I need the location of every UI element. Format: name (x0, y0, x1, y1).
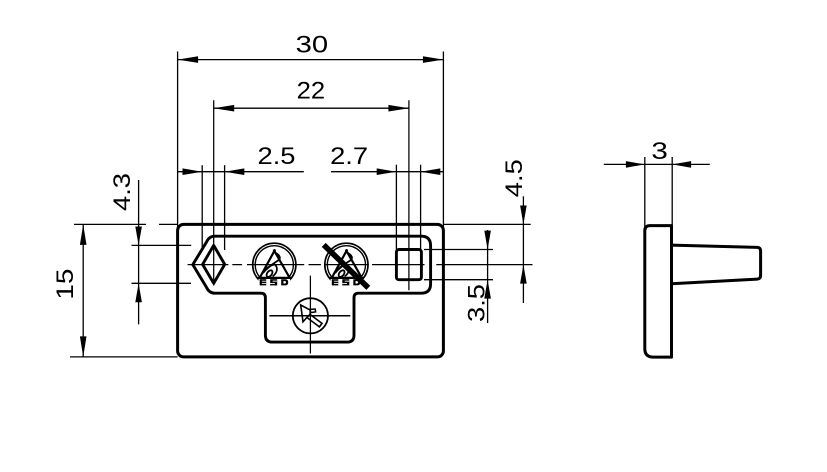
dimension 4.5 (443, 159, 530, 303)
svg-text:4.3: 4.3 (109, 173, 136, 211)
svg-text:3: 3 (651, 138, 668, 165)
svg-text:15: 15 (52, 269, 79, 300)
dimension 15 (52, 224, 178, 357)
dimension 22 (214, 77, 409, 111)
centerline square vertical (408, 100, 410, 290)
svg-text:22: 22 (297, 77, 326, 104)
centerline cursor horizontal (269, 315, 350, 317)
diamond symbol (203, 245, 225, 283)
plate outline front view (178, 224, 444, 357)
side view plate (645, 226, 672, 358)
esd symbol U2 crossed (324, 243, 369, 288)
square symbol (396, 250, 421, 280)
dimension 2.5 (178, 143, 304, 250)
dimension 3 side view (604, 138, 710, 231)
dimension 30 (178, 32, 444, 230)
svg-text:30: 30 (296, 32, 329, 59)
side view tab (672, 245, 761, 284)
svg-text:2.7: 2.7 (330, 143, 368, 170)
esd symbol U1 (253, 243, 296, 287)
dimension 3.5 (424, 230, 493, 323)
svg-text:3.5: 3.5 (464, 284, 491, 322)
centerline cursor vertical (309, 276, 311, 354)
svg-text:2.5: 2.5 (258, 143, 296, 170)
dimension 2.7 (330, 143, 443, 249)
cursor symbol (293, 298, 328, 333)
centerline diamond vertical (213, 100, 215, 285)
dimension 4.3 (109, 173, 191, 324)
inner contour front view (193, 236, 431, 342)
centerline horizontal main (188, 264, 533, 266)
svg-text:4.5: 4.5 (501, 159, 528, 197)
